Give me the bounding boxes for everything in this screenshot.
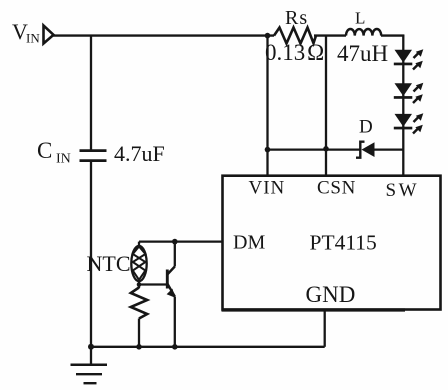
node: CSN pin / freewheel rail — [323, 146, 329, 152]
input port triangle — [44, 26, 54, 44]
svg-text:CSN: CSN — [317, 178, 356, 199]
LED D3 emission arrows — [413, 113, 423, 133]
IC U1 box PT4115 — [223, 176, 441, 310]
svg-text:IN: IN — [56, 152, 71, 167]
wire: top rail middle (Rs to L) — [314, 34, 346, 36]
LED D3 — [394, 114, 413, 129]
svg-text:IN: IN — [26, 31, 40, 46]
capacitor CIN plates — [80, 151, 107, 161]
svg-text:L: L — [355, 9, 365, 28]
inductor L — [346, 29, 381, 36]
wire: base wire — [139, 283, 167, 285]
svg-text:0.13 Ω: 0.13 Ω — [265, 40, 324, 65]
resistor Rs — [274, 28, 316, 44]
wire: NTC bottom stub — [138, 280, 140, 288]
node: ground rail / emitter — [172, 344, 178, 350]
LED D1 — [394, 50, 413, 65]
wire: CIN to ground — [90, 161, 92, 348]
label CIN — [37, 138, 71, 167]
svg-text:NTC: NTC — [87, 251, 131, 276]
svg-text:VIN: VIN — [249, 178, 286, 199]
wire: R1 to ground rail — [138, 319, 140, 349]
label VIN — [12, 19, 40, 46]
LED D2 emission arrows — [413, 83, 423, 103]
diode D (schottky) — [356, 142, 375, 158]
svg-text:D: D — [359, 117, 373, 138]
transistor Q1 (NPN) — [167, 267, 176, 298]
node: DM wire / collector junction — [172, 239, 178, 245]
svg-text:47uH: 47uH — [337, 41, 388, 66]
wire: GND pin vertical — [324, 310, 326, 347]
wire: ground rail — [91, 346, 325, 348]
wire: freewheel rail right (diode to SW) — [375, 148, 404, 150]
wire: VIN pin vertical — [266, 36, 268, 176]
node: ground rail / CIN — [88, 344, 94, 350]
resistor R1 — [131, 288, 147, 319]
node: VIN pin / freewheel rail — [265, 147, 271, 153]
wire: CSN pin vertical — [325, 36, 327, 176]
wire: DM pin horizontal — [139, 240, 223, 242]
svg-text:4.7uF: 4.7uF — [114, 141, 165, 166]
svg-text:PT4115: PT4115 — [310, 231, 377, 255]
svg-text:DM: DM — [233, 232, 265, 254]
wire: freewheel rail left (VIN pin to diode) — [268, 148, 361, 150]
IC bottom edge thick segment — [222, 308, 406, 311]
node: ground rail / R1 — [136, 344, 142, 350]
wire: top rail left (triangle to Rs) — [53, 34, 274, 36]
LED D2 — [394, 83, 413, 98]
node: top rail / VIN pin junction — [265, 33, 271, 39]
wire: CIN drop — [90, 35, 92, 150]
svg-text:C: C — [37, 138, 52, 163]
wire: emitter vertical — [174, 297, 176, 349]
wire: collector vertical — [174, 242, 176, 267]
svg-text:SW: SW — [386, 180, 420, 201]
LED D1 emission arrows — [413, 49, 423, 69]
svg-text:Rs: Rs — [285, 7, 308, 29]
wire: top rail right (L to LED corner) — [381, 34, 404, 36]
svg-text:GND: GND — [306, 282, 356, 307]
node: NTC bottom / base junction — [137, 282, 142, 287]
wire: NTC top stub — [138, 242, 140, 247]
thermistor NTC — [131, 246, 146, 281]
ground symbol — [71, 347, 108, 383]
wire: LED chain / SW vertical — [402, 35, 404, 177]
